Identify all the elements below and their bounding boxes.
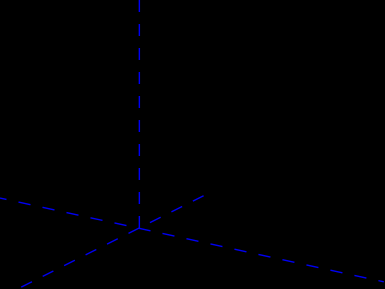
y-axis (shallow dashed blue line from left edge through origin to bottom-right corner) — [0, 198, 384, 282]
z-axis (vertical dashed blue line from top edge down to origin) — [138, 0, 140, 228]
x-axis (steep dashed blue line from its upper-right tip through origin to bottom-left edge) — [15, 196, 203, 289]
